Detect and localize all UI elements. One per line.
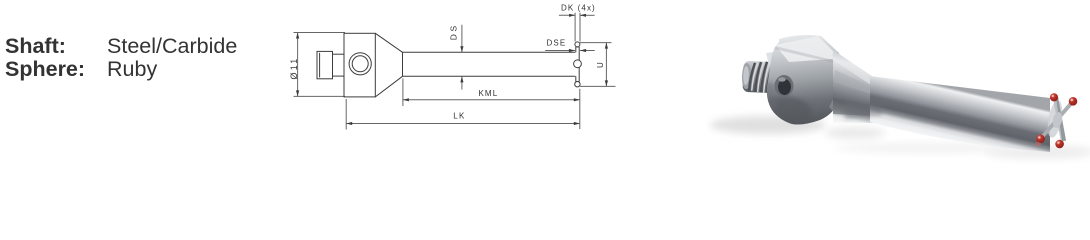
photo cone (833, 50, 874, 123)
photo shadow under tip (985, 145, 1090, 159)
photo hole (775, 75, 794, 97)
text Shaft value (107, 36, 237, 58)
shaft (403, 52, 576, 76)
photo junction dark band (845, 99, 882, 119)
hub center blob (1051, 111, 1063, 129)
photo shadow under cone (825, 127, 885, 139)
ruby ball 3 bottom-left (1036, 135, 1045, 144)
dim KML dimension (403, 79, 580, 130)
photo body crease under face (774, 46, 834, 63)
svg-text:U: U (596, 62, 605, 68)
svg-text:KML: KML (479, 89, 499, 98)
text Shaft label (5, 36, 66, 58)
photo thread (741, 61, 775, 93)
dim DSE dimension (545, 50, 595, 52)
dim U dimension (580, 43, 616, 87)
ball top (575, 42, 580, 47)
dim LK dimension (346, 99, 580, 130)
photo body left edge shade (762, 82, 778, 112)
photo body facet shade right (829, 52, 844, 112)
stem vertical shade (1056, 97, 1066, 141)
photo cone facet dark (833, 98, 874, 116)
dim DK dimension (559, 13, 595, 42)
neck (333, 54, 345, 76)
svg-text:LK: LK (453, 111, 465, 120)
photo body top face (775, 36, 836, 62)
dim Ø11 dimension line (294, 33, 346, 97)
ruby ball 4 bottom-right (1055, 140, 1064, 149)
photo shaft (870, 76, 1050, 152)
dim Ø11 arrows (296, 33, 299, 97)
ball highlights (1052, 95, 1054, 97)
ruby ball 2 top-right (1069, 97, 1078, 106)
photo shadow under shaft (835, 143, 1025, 153)
hole outer circle (349, 53, 371, 75)
ruby reflection on shaft (1035, 142, 1041, 146)
text Sphere label (5, 59, 85, 81)
photo cone top highlight (830, 50, 874, 85)
hub stem (576, 47, 579, 82)
thread chamfer line (319, 53, 321, 78)
svg-text:DS: DS (449, 23, 459, 40)
photo body dark bottom-left (755, 96, 811, 128)
photo star hub (1035, 93, 1077, 148)
stem vertical (1053, 97, 1066, 142)
dim DS dimension (461, 25, 463, 90)
photo cone facet mid (834, 70, 874, 95)
thread cylinder (317, 51, 333, 78)
photo thread collar (766, 51, 783, 65)
ball middle (574, 60, 582, 68)
ruby ball 1 top-left (1050, 93, 1058, 101)
photo shadow under body (710, 116, 826, 134)
stem horizontal (1039, 100, 1074, 140)
hole inner circle (352, 56, 368, 72)
svg-text:DK (4x): DK (4x) (561, 3, 596, 12)
cone (375, 33, 402, 97)
text Sphere value (107, 59, 157, 81)
hub cylinder light patch (1045, 99, 1064, 139)
svg-text:Ø11: Ø11 (289, 57, 299, 80)
body (344, 33, 375, 97)
svg-text:DSE: DSE (547, 38, 567, 47)
ball bottom (575, 82, 580, 87)
